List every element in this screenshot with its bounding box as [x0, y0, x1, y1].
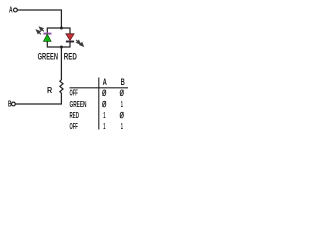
- table horizontal rule: [70, 87, 129, 89]
- junction bottom: [60, 46, 63, 49]
- svg-text:GREEN: GREEN: [38, 52, 58, 62]
- svg-text:A: A: [9, 6, 13, 15]
- table row 2 value A=0: [103, 101, 106, 107]
- wire top rail: [47, 27, 70, 29]
- wire right branch lower: [69, 42, 71, 48]
- red LED emission arrow 2: [79, 42, 83, 46]
- wire left branch lower: [46, 41, 48, 47]
- svg-text:RED: RED: [70, 110, 80, 120]
- svg-text:1: 1: [103, 121, 105, 131]
- wire bottom rail: [47, 46, 70, 48]
- svg-text:B: B: [121, 77, 126, 87]
- svg-text:1: 1: [121, 121, 123, 131]
- svg-text:1: 1: [121, 99, 123, 109]
- LED RED triangle: [66, 34, 74, 41]
- svg-text:GREEN: GREEN: [70, 99, 87, 109]
- LED GREEN triangle: [44, 34, 52, 41]
- table row 1 value A=0: [103, 90, 106, 96]
- LED GREEN cathode bar: [43, 33, 51, 35]
- svg-text:R: R: [47, 86, 52, 95]
- green LED emission arrow 2: [36, 30, 41, 34]
- red LED emission arrow 1: [76, 40, 80, 44]
- svg-text:A: A: [103, 77, 108, 87]
- svg-text:B: B: [8, 100, 12, 109]
- terminal A circle: [14, 8, 18, 12]
- svg-text:RED: RED: [64, 52, 77, 62]
- LED RED cathode bar: [66, 41, 74, 43]
- table row 3 value B=0: [120, 112, 123, 118]
- table vertical rule: [98, 78, 100, 130]
- wire right branch upper: [69, 28, 71, 35]
- green LED emission arrow 1: [39, 27, 43, 31]
- table row 1 value B=0: [120, 90, 123, 96]
- svg-text:OFF: OFF: [70, 88, 78, 98]
- svg-text:1: 1: [103, 110, 105, 120]
- svg-text:OFF: OFF: [70, 121, 78, 131]
- resistor R zigzag: [60, 80, 63, 93]
- wire from A to top rail: [17, 10, 61, 28]
- wire left branch upper: [46, 28, 48, 33]
- wire resistor to B: [15, 93, 61, 104]
- terminal B circle: [12, 102, 16, 106]
- wire center down to resistor: [60, 47, 62, 80]
- junction top: [60, 27, 63, 30]
